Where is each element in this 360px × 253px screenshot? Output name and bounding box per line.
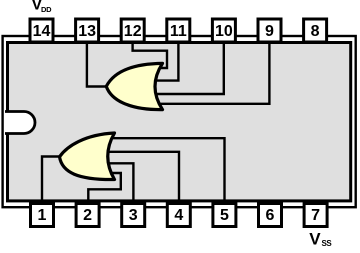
pin 13 box [76, 19, 99, 42]
wire pin 5 to gate U1A input 1 [109, 138, 225, 202]
pin 7 box [304, 204, 327, 227]
svg-text:5: 5 [220, 207, 229, 224]
wire pin 9 to gate U1B input 4 [156, 42, 269, 104]
IC body [8, 43, 351, 201]
svg-text:4: 4 [174, 207, 183, 224]
svg-text:9: 9 [265, 23, 274, 40]
pin 4 box [167, 204, 190, 227]
svg-text:11: 11 [170, 23, 187, 40]
pin 9 box [258, 19, 281, 42]
pin 14 box [30, 19, 53, 42]
wire pin 11 to gate U1B input 2 [153, 42, 178, 81]
svg-text:14: 14 [33, 23, 51, 40]
svg-text:DD: DD [41, 5, 52, 14]
pin 11 box [167, 19, 190, 42]
pin 1 box [31, 204, 54, 227]
svg-text:1: 1 [38, 207, 47, 224]
wire pin 12 to gate U1B input 1 [133, 42, 167, 68]
pin 10 box [212, 19, 235, 42]
pin 3 box [122, 204, 145, 227]
VSS label [309, 229, 332, 248]
svg-text:12: 12 [124, 23, 142, 40]
svg-text:SS: SS [322, 239, 333, 248]
package outline [3, 36, 356, 207]
svg-text:7: 7 [311, 207, 320, 224]
wire pin 13 to gate U1B output [87, 42, 107, 87]
wire pin 1 to gate U1A output [42, 157, 61, 203]
or-gate U1B (inputs 9,10,11,12 output 13) [106, 63, 162, 109]
notch [5, 112, 35, 134]
svg-text:13: 13 [78, 23, 96, 40]
or-gate U1A (inputs 2,3,4,5 output 1) [60, 133, 115, 180]
wire pin 2 to gate U1A input 4 [88, 173, 121, 202]
wire pin 10 to gate U1B input 3 [153, 42, 224, 94]
wire pin 3 to gate U1A input 3 [106, 163, 133, 202]
svg-text:V: V [309, 229, 321, 248]
svg-text:2: 2 [83, 207, 92, 224]
pin 5 box [213, 204, 236, 227]
svg-text:3: 3 [129, 207, 138, 224]
VDD label [32, 0, 53, 14]
svg-text:6: 6 [266, 207, 275, 224]
pin 12 box [121, 19, 144, 42]
wire pin 4 to gate U1A input 2 [105, 152, 179, 202]
pin 6 box [259, 204, 282, 227]
pin 8 box [304, 19, 327, 42]
svg-text:8: 8 [311, 23, 320, 40]
pin 2 box [76, 204, 99, 227]
svg-text:10: 10 [215, 23, 233, 40]
